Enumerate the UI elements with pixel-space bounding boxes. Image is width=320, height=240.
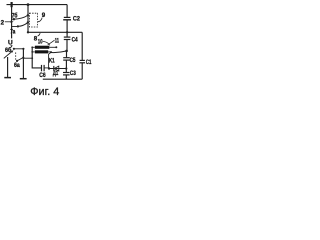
crystal 10 (upper) [32,46,57,49]
svg-text:C4: C4 [72,36,78,43]
wire K1 vertical [49,52,51,68]
svg-text:Фиг. 4: Фиг. 4 [30,86,59,98]
box 9 (dashed enclosure) [29,13,37,27]
wire x23 vertical [22,49,24,79]
capacitor C1 [79,60,85,79]
capacitor C5 [63,51,70,68]
arrow under U [10,45,12,47]
ground left bar [4,77,11,79]
leader for 9 [38,18,42,22]
capacitor C2 [63,17,71,32]
contact 6a [16,57,25,62]
crystal 11 (lower) [32,50,52,53]
node top stub [11,2,13,7]
wire left vertical (net 2) [11,5,13,39]
leader arrow for 2 [5,21,14,23]
svg-text:7а: 7а [10,28,16,35]
contact 6b plate [13,48,25,50]
wire C2 column upper [66,5,68,17]
svg-text:K1: K1 [49,57,55,64]
junction x28 7a [27,21,29,23]
contact 6b arm (curved, arrowhead) [4,50,14,58]
wire vertical x28 [27,5,29,33]
svg-text:Д1: Д1 [53,70,59,77]
leader for 10 [43,42,50,46]
junction column-crystal10 [31,46,33,48]
contact 7a [12,23,28,28]
svg-text:C3: C3 [70,70,76,77]
contact 7b [12,16,28,21]
svg-text:C6: C6 [39,72,46,79]
junction K1-C4C5 [65,50,68,53]
junction x28 top [27,3,30,6]
svg-text:6а: 6а [14,62,20,69]
svg-text:C1: C1 [86,59,92,66]
wire C1 column [81,32,83,60]
leader for 8 [38,33,41,36]
junction diode-C3 [65,67,67,69]
wire mid rail (net 8) [28,31,82,33]
junction column-crystal11 [31,51,33,53]
capacitor C4 [64,32,71,50]
wire bottom rail [43,78,82,80]
wire top rail [7,4,68,6]
switch K1 arm [51,51,66,53]
leader for 11 [48,40,55,45]
junction column-6a [31,57,33,59]
svg-text:10: 10 [38,39,43,46]
svg-text:11: 11 [55,37,60,44]
junction x28 7b [27,14,29,16]
node K1 bottom [48,67,50,69]
wire ground-left vertical [7,57,9,77]
svg-text:2: 2 [1,19,5,26]
capacitor C3 [63,69,70,80]
svg-text:C5: C5 [70,57,76,64]
wire 6a fixed line [23,57,32,59]
svg-text:C2: C2 [73,15,80,22]
junction rail-C4 [66,31,68,33]
capacitor C6 [42,65,49,71]
junction rail-x28 [27,31,29,33]
wire crystals left column [32,47,41,68]
wire diode row [49,68,66,70]
ground mid bar [20,78,27,80]
diode D1 [54,66,59,71]
mechanical link (dashed) [15,52,17,61]
